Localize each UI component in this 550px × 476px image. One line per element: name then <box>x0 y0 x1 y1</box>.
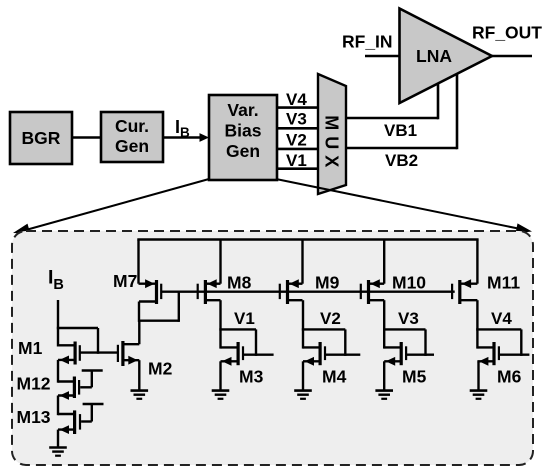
svg-text:V4: V4 <box>491 309 512 328</box>
svg-text:BGR: BGR <box>22 128 61 148</box>
svg-text:Bias: Bias <box>225 121 262 141</box>
transistor M11 (PMOS) <box>451 279 477 304</box>
wire M1 diode loop (IB node to M1 gate) <box>57 328 98 354</box>
zoom line left with arrowhead <box>13 179 209 234</box>
wire M8 source from rail <box>219 240 221 284</box>
transistor M12 <box>58 377 80 400</box>
transistor M10 (PMOS) <box>360 279 385 304</box>
wire BGR to Cur Gen <box>72 136 101 139</box>
op-amp LNA <box>400 9 493 104</box>
ground under M4 <box>294 391 312 399</box>
wire IB (Cur Gen to Var Bias Gen) with arrowhead <box>163 133 209 142</box>
wire M12 source to M13 drain <box>57 396 59 416</box>
wire M7 source from rail <box>137 240 139 284</box>
svg-text:Cur.: Cur. <box>115 116 149 136</box>
wire V4 node loop to M6 gate <box>476 329 521 356</box>
wire M3 source to ground <box>219 361 221 390</box>
wire IB down to M1 drain <box>57 300 59 347</box>
wire M13 source to ground <box>57 430 59 448</box>
block BGR <box>10 112 72 164</box>
ground under M13 <box>49 448 67 456</box>
wire M13 gate tie (gate to cap) <box>81 404 103 422</box>
transistor M9 (PMOS) <box>279 279 303 304</box>
svg-text:RF_IN: RF_IN <box>342 32 393 52</box>
wire M2 drain up to M7 drain loop <box>138 321 140 345</box>
wire RF_OUT <box>490 55 532 58</box>
svg-text:M7: M7 <box>113 271 137 291</box>
transistor M1 <box>58 342 81 365</box>
wire V1 node loop to M3 gate <box>219 329 256 356</box>
ground under M3 <box>212 391 230 399</box>
wire V1 <box>277 167 318 170</box>
svg-text:Gen: Gen <box>226 141 260 161</box>
svg-text:M8: M8 <box>227 273 252 293</box>
svg-text:LNA: LNA <box>416 46 452 66</box>
transistor M4 <box>303 342 360 366</box>
node M1 gate rail to M2 gate <box>80 351 118 353</box>
wire M4 source to ground <box>302 361 304 390</box>
svg-text:M9: M9 <box>315 273 340 293</box>
wire M10 source from rail <box>383 240 385 284</box>
wire M5 source to ground <box>383 361 385 390</box>
svg-text:M12: M12 <box>17 374 51 394</box>
transistor M8 (PMOS) <box>197 279 221 304</box>
svg-text:Var.: Var. <box>227 100 258 120</box>
svg-text:M2: M2 <box>148 359 173 379</box>
svg-text:M6: M6 <box>497 367 522 387</box>
svg-text:VB1: VB1 <box>384 121 417 140</box>
wire M9 source from rail <box>301 240 303 284</box>
svg-text:M4: M4 <box>322 367 347 387</box>
svg-text:V1: V1 <box>234 309 255 328</box>
dashed detail box <box>12 231 533 465</box>
block Cur. Gen <box>101 112 163 162</box>
svg-text:M5: M5 <box>402 367 427 387</box>
ground under M2 <box>131 391 149 399</box>
wire V3 node loop to M5 gate <box>383 329 426 356</box>
wire VB1 (MUX to LNA) <box>346 84 438 120</box>
svg-text:M13: M13 <box>17 407 51 427</box>
wire V2 node loop to M4 gate <box>302 329 346 356</box>
ground under M5 <box>375 391 393 399</box>
wire V3 <box>277 127 318 130</box>
svg-text:V3: V3 <box>398 309 419 328</box>
transistor M13 <box>58 410 81 434</box>
svg-text:V1: V1 <box>286 151 307 170</box>
wire M11 source from rail <box>476 240 478 284</box>
ground under M6 <box>470 391 488 399</box>
svg-text:VB2: VB2 <box>385 151 418 170</box>
top supply rail <box>137 238 478 241</box>
block Var. Bias Gen <box>209 95 277 180</box>
wire M7 drain diode loop to gate rail <box>139 292 179 322</box>
wire V4 <box>277 106 318 109</box>
svg-text:Gen: Gen <box>115 136 149 156</box>
transistor M5 <box>384 342 434 366</box>
svg-text:IB: IB <box>175 117 190 140</box>
transistor M7 (PMOS, diode-connected) <box>139 279 163 304</box>
wire RF_IN <box>365 55 400 58</box>
wire M12 gate tie (gate to cap) <box>80 371 103 388</box>
wire M6 source to ground <box>477 361 479 390</box>
transistor M3 <box>221 342 274 366</box>
transistor M2 <box>117 341 140 366</box>
gate rail of current mirror M7-M11 <box>161 291 455 293</box>
wire M5 drain from PMOS above (node V3) <box>383 300 385 348</box>
svg-text:MUX: MUX <box>322 115 342 173</box>
svg-text:M10: M10 <box>392 273 426 293</box>
wire M4 drain from PMOS above (node V2) <box>302 300 304 348</box>
wire M6 drain from PMOS above (node V4) <box>476 300 478 348</box>
transistor M6 <box>477 342 529 366</box>
svg-text:V2: V2 <box>320 309 341 328</box>
svg-text:M1: M1 <box>18 338 43 358</box>
wire M1 source to M12 drain <box>57 360 59 383</box>
svg-text:M11: M11 <box>487 273 520 293</box>
wire M2 source to ground <box>138 360 140 390</box>
zoom line right with arrowhead <box>276 179 532 233</box>
wire V2 <box>277 148 318 151</box>
svg-text:V4: V4 <box>286 90 307 109</box>
mux MUX <box>318 74 346 194</box>
wire M3 drain from PMOS above (node V1) <box>219 300 221 348</box>
svg-text:RF_OUT: RF_OUT <box>472 23 542 43</box>
wire VB2 (MUX to LNA) <box>346 74 457 149</box>
svg-text:V2: V2 <box>286 131 307 150</box>
svg-text:M3: M3 <box>239 367 264 387</box>
svg-text:V3: V3 <box>286 110 307 129</box>
